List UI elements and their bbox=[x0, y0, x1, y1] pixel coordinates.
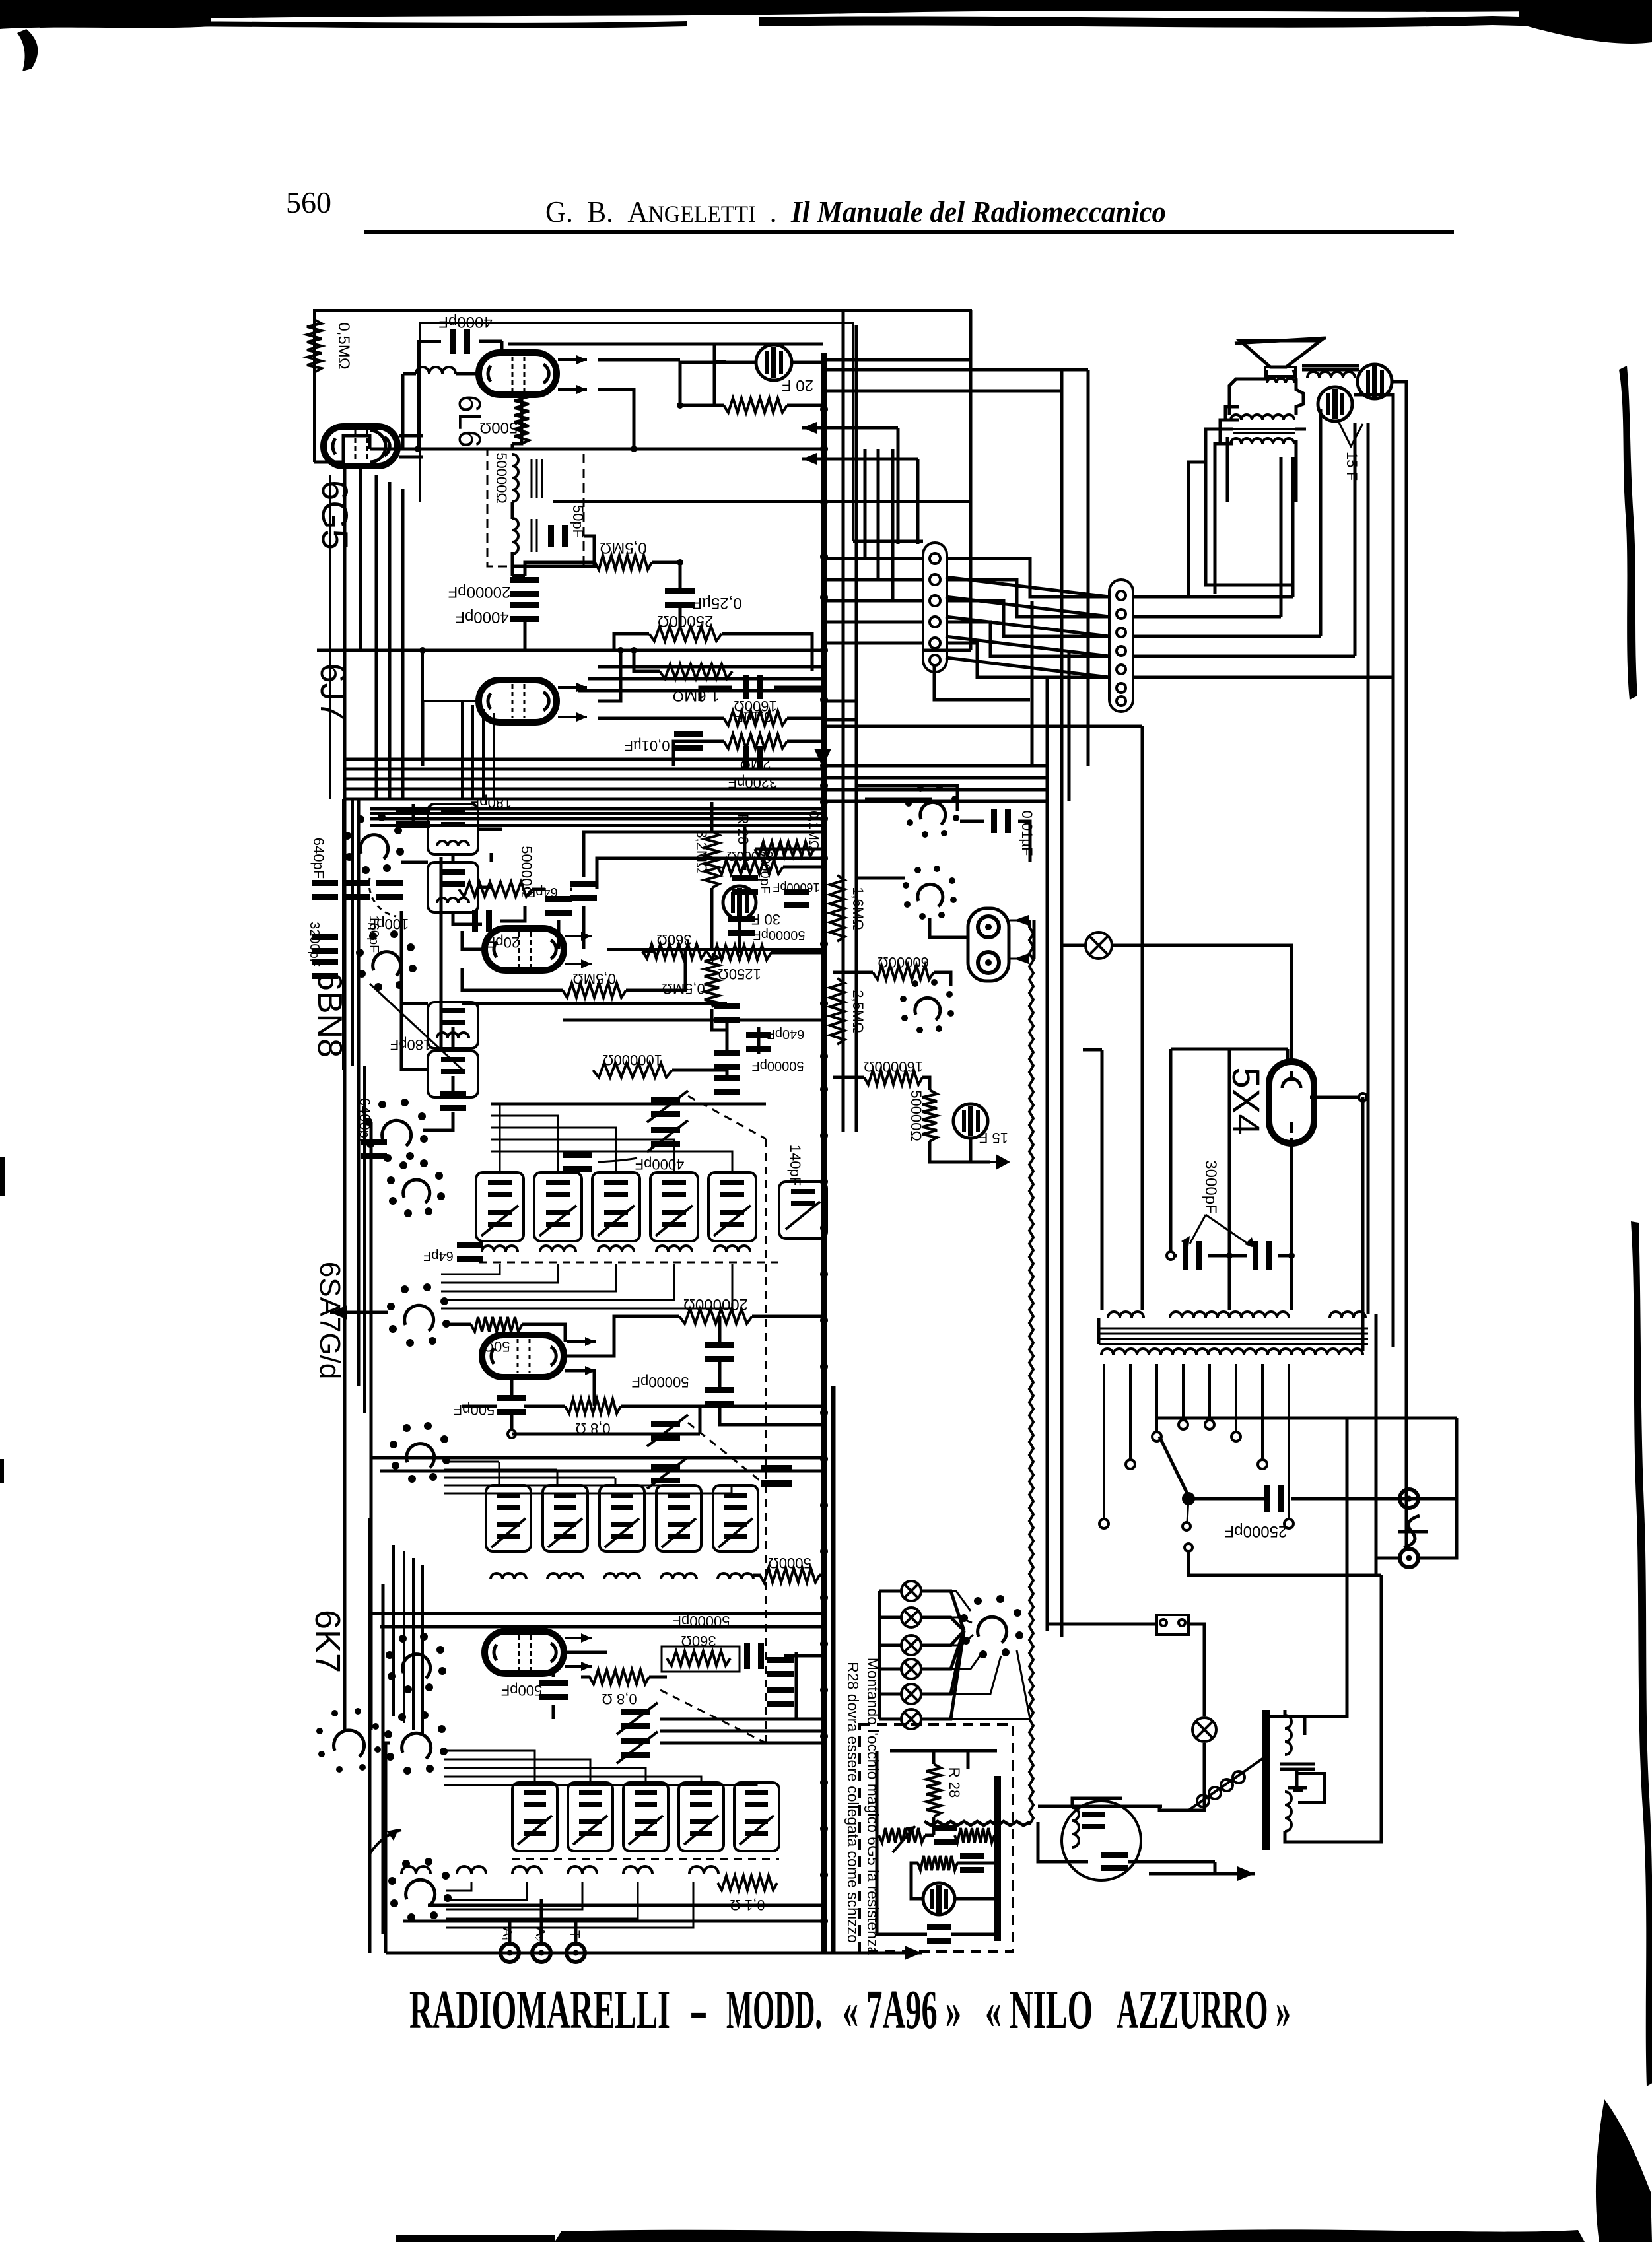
trimmer box mid bbox=[428, 862, 478, 912]
capacitor 640pF b bbox=[746, 1032, 771, 1052]
power switch relay box bbox=[1155, 1613, 1156, 1614]
capacitor 0,01µF det bbox=[991, 809, 1011, 833]
IF can dashed bbox=[479, 1262, 779, 1264]
electrolytic 15µF b bbox=[953, 1104, 988, 1138]
pilot lamp power bbox=[1192, 1718, 1216, 1742]
output transformer dashed box bbox=[487, 449, 584, 566]
svg-text:MODD.: MODD. bbox=[726, 1979, 822, 2041]
socket 6SA7 b bbox=[387, 1159, 445, 1217]
tube 6J7 bbox=[479, 680, 557, 722]
svg-text:20000pF: 20000pF bbox=[448, 583, 511, 601]
coil row 6SA7 bbox=[482, 1246, 518, 1252]
electrolytic 20µF bbox=[756, 345, 792, 380]
svg-text:50000pF: 50000pF bbox=[632, 1374, 689, 1390]
6SA7 bottom mesh bbox=[565, 1371, 594, 1406]
svg-text:4000pF: 4000pF bbox=[455, 608, 508, 626]
connector strip 1 bbox=[923, 543, 947, 672]
svg-text:« NILO: « NILO bbox=[985, 1979, 1093, 2041]
resistor 5000Ω bbox=[760, 1568, 819, 1582]
svg-text:R 28: R 28 bbox=[946, 1767, 963, 1798]
rotary switch socket S2 bbox=[356, 930, 417, 991]
output transformer right bottom bbox=[1262, 1710, 1270, 1850]
switch contact pair bbox=[1183, 1522, 1190, 1530]
scan artifact left edge specks bbox=[0, 1157, 5, 1196]
ground arrow down bbox=[990, 1161, 996, 1163]
svg-text:0,01µF: 0,01µF bbox=[1019, 811, 1035, 856]
svg-text:500pF: 500pF bbox=[501, 1682, 542, 1699]
dashed diagonal row3 bbox=[660, 1690, 766, 1743]
secondary taps down bbox=[1103, 1364, 1105, 1518]
left feed verticals to transformer bbox=[1101, 1050, 1104, 1310]
capacitor 4000pF bank bbox=[563, 1151, 592, 1172]
svg-text:60000Ω: 60000Ω bbox=[878, 954, 929, 970]
inset res b bbox=[918, 1856, 957, 1870]
svg-text:50000Ω: 50000Ω bbox=[908, 1090, 924, 1141]
voice coil bbox=[1267, 378, 1295, 383]
ground wire bottom with arrow bbox=[386, 1952, 922, 1955]
3000pF caps bbox=[1183, 1241, 1202, 1270]
resistor 100000Ω bbox=[593, 1063, 672, 1077]
trimmer bank 3 bbox=[512, 1783, 557, 1851]
tube 6K7 bbox=[485, 1631, 564, 1674]
svg-text:100000Ω: 100000Ω bbox=[603, 1052, 662, 1068]
capacitor bold 2 bbox=[761, 1465, 792, 1487]
svg-text:6G5: 6G5 bbox=[314, 480, 356, 550]
dashed under bank3 bbox=[512, 1858, 779, 1860]
6BN8 block frame verticals bbox=[440, 857, 443, 1051]
svg-text:16000pF: 16000pF bbox=[773, 881, 819, 894]
dashed arrows to jack bbox=[1010, 920, 1034, 922]
resistor 0,8Ω b bbox=[590, 1670, 649, 1684]
resistor 1,6MΩ bbox=[660, 664, 732, 679]
capacitor 500pF bbox=[497, 1395, 526, 1415]
field coil top bbox=[1231, 415, 1294, 420]
capacitor 500pF b bbox=[539, 1680, 568, 1700]
motor wires bbox=[1038, 1805, 1162, 1808]
svg-text:15 F: 15 F bbox=[979, 1130, 1008, 1146]
tube 6BN8 bbox=[485, 928, 564, 970]
wires transformer bottom right bbox=[1284, 1710, 1287, 1715]
B+ distribution verticals bbox=[969, 310, 973, 650]
header rule bbox=[364, 230, 1454, 234]
dashed tuning gang line bbox=[688, 1096, 766, 1139]
inset ground bar bbox=[994, 1776, 1001, 1941]
scan artifact right edge bbox=[1619, 366, 1637, 700]
transformer vertical sides bbox=[1097, 1318, 1101, 1344]
capacitor 50000pF b bbox=[714, 1003, 740, 1023]
svg-text:640pF: 640pF bbox=[767, 1027, 805, 1041]
selector beads diagonal bbox=[1188, 1759, 1262, 1810]
wires speaker loop bbox=[1206, 429, 1293, 585]
right of bus bundle to 1586 bbox=[824, 764, 1047, 768]
resistor 160000Ω bbox=[864, 1070, 922, 1085]
svg-text:0,5MΩ: 0,5MΩ bbox=[335, 322, 353, 369]
svg-text:200000Ω: 200000Ω bbox=[683, 1295, 748, 1313]
wire bus area down bbox=[1375, 1314, 1378, 1558]
mains terminals bbox=[1400, 1489, 1418, 1508]
jagged shield horizontal bbox=[924, 1821, 1030, 1825]
svg-text:6SA7G/d: 6SA7G/d bbox=[314, 1262, 346, 1380]
antenna terminal drops bbox=[508, 1922, 512, 1944]
svg-text:25000pF: 25000pF bbox=[1225, 1522, 1288, 1540]
inset electrolytic bbox=[923, 1883, 955, 1915]
variable caps row 3 bbox=[621, 1709, 650, 1729]
svg-text:3,2MΩ: 3,2MΩ bbox=[693, 830, 710, 873]
long verticals right column extra bbox=[1087, 370, 1090, 766]
resistor 1600Ω bbox=[724, 711, 787, 726]
wire sec to right bbox=[553, 500, 971, 503]
inset cap a bbox=[934, 1825, 957, 1845]
tube 6G5 magic eye bbox=[324, 426, 397, 466]
capacitor 0,1µF bbox=[743, 675, 763, 699]
capacitor 50000pF a bbox=[728, 916, 755, 936]
speaker frame lines bbox=[1233, 428, 1295, 430]
trimmer 140pF bbox=[779, 1182, 827, 1239]
svg-text:2500Ω: 2500Ω bbox=[479, 419, 526, 436]
staircase row2 socket to bank2 bbox=[444, 1461, 499, 1463]
tube 6L6 bbox=[479, 353, 557, 395]
6J7 nested wires bbox=[598, 665, 824, 669]
svg-text:50000pF: 50000pF bbox=[752, 1058, 804, 1073]
inset cap c bbox=[927, 1924, 951, 1944]
svg-text:6K7: 6K7 bbox=[308, 1610, 347, 1673]
drops from bundle to strip zone bbox=[865, 449, 923, 559]
speaker cone bbox=[1240, 341, 1321, 367]
capacitor 4000pF top bbox=[450, 329, 470, 354]
heater arrows into bus bbox=[802, 426, 898, 430]
socket 6SA7 main bbox=[387, 1283, 450, 1347]
25000pF line cap bbox=[1188, 1497, 1268, 1501]
resistor 0,5MΩ top left bbox=[307, 320, 322, 372]
electrolytic 30µF bbox=[723, 886, 756, 919]
bank1 top feeds bbox=[491, 1104, 500, 1172]
resistor 360Ω b bbox=[667, 1651, 730, 1666]
resistor 80000Ω bbox=[717, 860, 783, 874]
svg-text:500pF: 500pF bbox=[454, 1402, 495, 1418]
h joggles right column bbox=[824, 725, 1142, 728]
resistor 360Ω bbox=[642, 944, 706, 959]
svg-text:6J7: 6J7 bbox=[313, 663, 353, 720]
bottom long horizontals bbox=[428, 1904, 824, 1907]
AC symbol bbox=[1404, 1516, 1420, 1547]
resistor 0,1MΩ bbox=[755, 842, 814, 856]
wire top frame B bbox=[420, 323, 853, 541]
svg-text:50000pF: 50000pF bbox=[753, 928, 806, 942]
output transformer secondary bbox=[512, 518, 518, 554]
socket dial lamps bbox=[960, 1595, 1023, 1658]
svg-text:4000pF: 4000pF bbox=[635, 1156, 685, 1172]
arrow curve antenna bbox=[370, 1830, 401, 1854]
svg-text:0,25µF: 0,25µF bbox=[692, 594, 741, 612]
right-of-bus heater verticals bbox=[842, 312, 845, 1132]
lamp column left bbox=[901, 1581, 921, 1601]
trimmer box upper bbox=[428, 804, 478, 854]
wire left bundle bbox=[357, 799, 361, 1386]
svg-text:140pF: 140pF bbox=[787, 1145, 804, 1186]
svg-text:5000Ω: 5000Ω bbox=[768, 1555, 811, 1571]
capacitor 640pF stack bbox=[312, 880, 338, 900]
resistor 2,5MΩ vertical bbox=[830, 978, 844, 1044]
staircase row3 socket to coils3 bbox=[444, 1751, 535, 1783]
socket 6K7 bbox=[386, 1633, 446, 1693]
resistor 3,2MΩ bbox=[705, 831, 719, 888]
svg-text:0,5MΩ: 0,5MΩ bbox=[572, 970, 615, 987]
svg-text:20 F: 20 F bbox=[782, 376, 813, 394]
wire left bundle bbox=[370, 1122, 373, 1730]
tap bus line bbox=[1157, 1417, 1457, 1420]
selector arm bbox=[1159, 1437, 1188, 1496]
resistor 0,5MΩ right bbox=[705, 954, 719, 1007]
6BN8 leader diagonal bbox=[370, 984, 462, 1070]
6K7 nested right bbox=[660, 1718, 824, 1721]
wire left bundle v1 bbox=[342, 799, 345, 1070]
fuse box bbox=[1157, 1615, 1188, 1635]
socket det 2 bbox=[903, 866, 957, 920]
resistor 1,6MΩ vertical bbox=[830, 875, 844, 941]
coil row 2 bbox=[491, 1573, 526, 1579]
capacitor 20000pF bbox=[510, 577, 539, 597]
socket 6SA7 osc bbox=[364, 1099, 428, 1162]
antenna terminals A1 A2 T bbox=[500, 1944, 519, 1962]
wire long h 985 bbox=[317, 649, 824, 652]
resistor 0,8Ω bbox=[565, 1399, 621, 1413]
inset cap b bbox=[960, 1853, 984, 1873]
6L6 plate lead arrow bbox=[558, 358, 587, 361]
resistor 50Ω bbox=[471, 1317, 522, 1332]
wire 6G5 cathode down bbox=[359, 467, 362, 650]
capacitor 3200pF left bbox=[312, 934, 338, 954]
svg-text:640pF: 640pF bbox=[310, 838, 327, 879]
svg-text:50000Ω: 50000Ω bbox=[493, 452, 510, 504]
svg-text:3200pF: 3200pF bbox=[307, 922, 322, 967]
inset pot bbox=[879, 1828, 925, 1843]
svg-text:1600Ω: 1600Ω bbox=[734, 698, 776, 714]
loop antenna socket bbox=[316, 1708, 381, 1773]
inset res a bbox=[955, 1828, 994, 1843]
6L6 cathode lead arrow bbox=[558, 388, 587, 391]
wire left bundle bbox=[343, 799, 347, 1730]
svg-text:180pF: 180pF bbox=[471, 794, 512, 811]
socket det 1 bbox=[905, 784, 959, 838]
staircase 6SA7 socket to coils bbox=[441, 1264, 500, 1274]
electrolytic A bbox=[1358, 364, 1392, 399]
heavy bus lower duplicate bbox=[831, 1386, 836, 1953]
tuning motor circle bbox=[1062, 1801, 1141, 1880]
6BN8 R28 cluster wires bbox=[710, 802, 714, 831]
wire long h 680 bbox=[370, 448, 824, 451]
output transformer primary bbox=[512, 454, 518, 502]
variable capacitor arrows mid bbox=[651, 1097, 680, 1117]
wire 6BN8 plate to bus bbox=[607, 948, 824, 951]
resistor 25000Ω bbox=[649, 627, 722, 641]
capacitor 64pF bbox=[545, 896, 572, 916]
capacitor 16000pF bbox=[784, 889, 809, 908]
resistor 2MΩ bbox=[724, 734, 787, 749]
grid choke 6L6 bbox=[416, 367, 456, 374]
svg-text:15 F: 15 F bbox=[1344, 452, 1360, 481]
5X4 plate frame bbox=[1171, 1048, 1288, 1051]
svg-text:RADIOMARELLI: RADIOMARELLI bbox=[409, 1979, 670, 2041]
tube 6SA7 bbox=[482, 1335, 564, 1377]
field coil bottom bbox=[1231, 438, 1294, 444]
phono jack bbox=[968, 908, 1009, 981]
svg-text:-: - bbox=[689, 1979, 708, 2041]
socket row2 bbox=[390, 1422, 450, 1483]
svg-text:G. B. ANGELETTI . Il Manua: G. B. ANGELETTI . Il Manuale del Radiome… bbox=[545, 195, 1166, 228]
6BN8 switch dots arcs bbox=[369, 878, 396, 916]
capacitor 50pF bbox=[548, 525, 568, 547]
connector strip 2 bbox=[1109, 580, 1133, 712]
left edge frame of 6K7 block bbox=[386, 1743, 390, 1868]
resistor 0,5MΩ h bbox=[563, 983, 626, 998]
6G5 target arc bbox=[370, 430, 386, 462]
svg-text:30 F: 30 F bbox=[751, 911, 780, 928]
left bundle verticals long bbox=[329, 475, 331, 799]
socket row3 a bbox=[384, 1711, 448, 1775]
electrolytic B bbox=[1318, 387, 1352, 421]
5X4 rectifier tube bbox=[1269, 1062, 1314, 1143]
svg-text:AZZURRO »: AZZURRO » bbox=[1117, 1979, 1291, 2041]
h transition rows 2205-2230 bbox=[370, 1456, 824, 1460]
trimmer bank 6SA7 bbox=[476, 1172, 524, 1241]
variable caps row 2 bbox=[651, 1421, 680, 1441]
wire left bundle bbox=[382, 1584, 385, 1934]
capacitor 3200pF bbox=[743, 746, 763, 770]
svg-text:160000Ω: 160000Ω bbox=[864, 1058, 923, 1075]
svg-text:360Ω: 360Ω bbox=[656, 932, 691, 948]
trimmer bank 2 bbox=[486, 1485, 531, 1551]
routing wires right of bus bbox=[824, 358, 971, 362]
resistor 1250Ω bbox=[708, 945, 771, 960]
6BN8 bottom trimmer links bbox=[452, 1027, 455, 1051]
resistor 250Ω bbox=[724, 398, 787, 413]
dial lamp bbox=[1085, 932, 1112, 959]
svg-text:4000pF: 4000pF bbox=[438, 313, 492, 331]
jagged shield line vertical bbox=[1029, 920, 1033, 1825]
speaker body outline bbox=[1229, 370, 1266, 415]
bus arrowhead mid bbox=[814, 749, 831, 767]
resistor 50000Ω v bbox=[922, 1090, 937, 1141]
wire to 4000pF bbox=[418, 341, 441, 449]
svg-text:A₁: A₁ bbox=[500, 1928, 514, 1941]
heater hop lines right of bus bbox=[824, 700, 856, 703]
svg-text:0,01µF: 0,01µF bbox=[625, 737, 670, 754]
svg-text:1250Ω: 1250Ω bbox=[718, 966, 761, 982]
blocking cap bold bbox=[396, 807, 430, 828]
capacitor 6400pF bbox=[361, 1139, 387, 1159]
svg-text:560: 560 bbox=[286, 186, 331, 219]
svg-text:360Ω: 360Ω bbox=[681, 1633, 716, 1649]
scan artifact bottom edge bbox=[555, 2229, 1585, 2242]
wire top frame A bbox=[314, 310, 971, 531]
coil row3 feeds bbox=[446, 1882, 471, 1891]
wire from strips down bbox=[934, 665, 1030, 700]
capacitor 64pF b bbox=[457, 1242, 483, 1262]
EI core symbol bbox=[1280, 1764, 1315, 1790]
svg-text:« 7A96 »: « 7A96 » bbox=[843, 1979, 961, 2041]
svg-text:64pF: 64pF bbox=[423, 1248, 454, 1263]
resistor 50000Ω IF bbox=[459, 882, 532, 897]
6BN8 inner mesh bbox=[401, 861, 428, 864]
resistor 200000Ω bbox=[679, 1309, 752, 1324]
power transformer bbox=[1108, 1312, 1144, 1318]
wire bundle h bbox=[346, 758, 823, 761]
inset R28 bbox=[926, 1764, 941, 1817]
capacitor 0,25µF bbox=[665, 588, 695, 608]
h transition rows 2440-2468 bbox=[370, 1612, 824, 1615]
svg-text:3000pF: 3000pF bbox=[1202, 1160, 1220, 1213]
capacitor 4000pF lower bbox=[510, 602, 539, 622]
socket det 3 bbox=[900, 979, 954, 1033]
resistor 0,1Ω bbox=[718, 1876, 777, 1890]
rotary switch socket S1 bbox=[343, 813, 404, 874]
capacitor 100pF bbox=[376, 880, 403, 900]
bundle horizontals upper mid bbox=[370, 812, 824, 815]
resistor 0,5MΩ mid bbox=[595, 555, 652, 570]
capacitor 8000pF bbox=[732, 875, 758, 895]
svg-text:180pF: 180pF bbox=[390, 1036, 431, 1053]
5X4 wires bbox=[1310, 1096, 1363, 1099]
wire 20F loop upper bbox=[508, 343, 823, 346]
speaker magnet block bbox=[1265, 367, 1295, 376]
wire 6J7 grid bbox=[423, 650, 478, 701]
svg-text:64pF: 64pF bbox=[528, 885, 558, 899]
inset dashed box bbox=[860, 1724, 1013, 1952]
capacitor 20pF bbox=[472, 910, 492, 932]
scan artifact top edge bar bbox=[0, 0, 1652, 25]
svg-text:25000Ω: 25000Ω bbox=[658, 612, 714, 630]
extra verticals strips to bundle bbox=[1068, 650, 1071, 801]
coil row 3 bbox=[401, 1866, 430, 1874]
socket ant bbox=[388, 1858, 452, 1921]
capacitor 50000pF c bbox=[705, 1342, 734, 1362]
capacitor 0,01µF bbox=[674, 731, 703, 751]
capacitor 6K7 right bbox=[744, 1643, 764, 1669]
main B+ bus bbox=[821, 353, 827, 1953]
resistor 60000Ω bbox=[873, 965, 934, 980]
resistor 2500Ω (plate load) bbox=[514, 393, 529, 444]
svg-text:0,5MΩ: 0,5MΩ bbox=[600, 539, 646, 557]
svg-text:50pF: 50pF bbox=[570, 505, 586, 538]
long h 1520 1545 bbox=[462, 1002, 727, 1005]
svg-text:0,8 Ω: 0,8 Ω bbox=[602, 1691, 637, 1707]
output trans secondary right bbox=[1302, 364, 1359, 368]
relay switch small box upper bbox=[1156, 1614, 1157, 1615]
